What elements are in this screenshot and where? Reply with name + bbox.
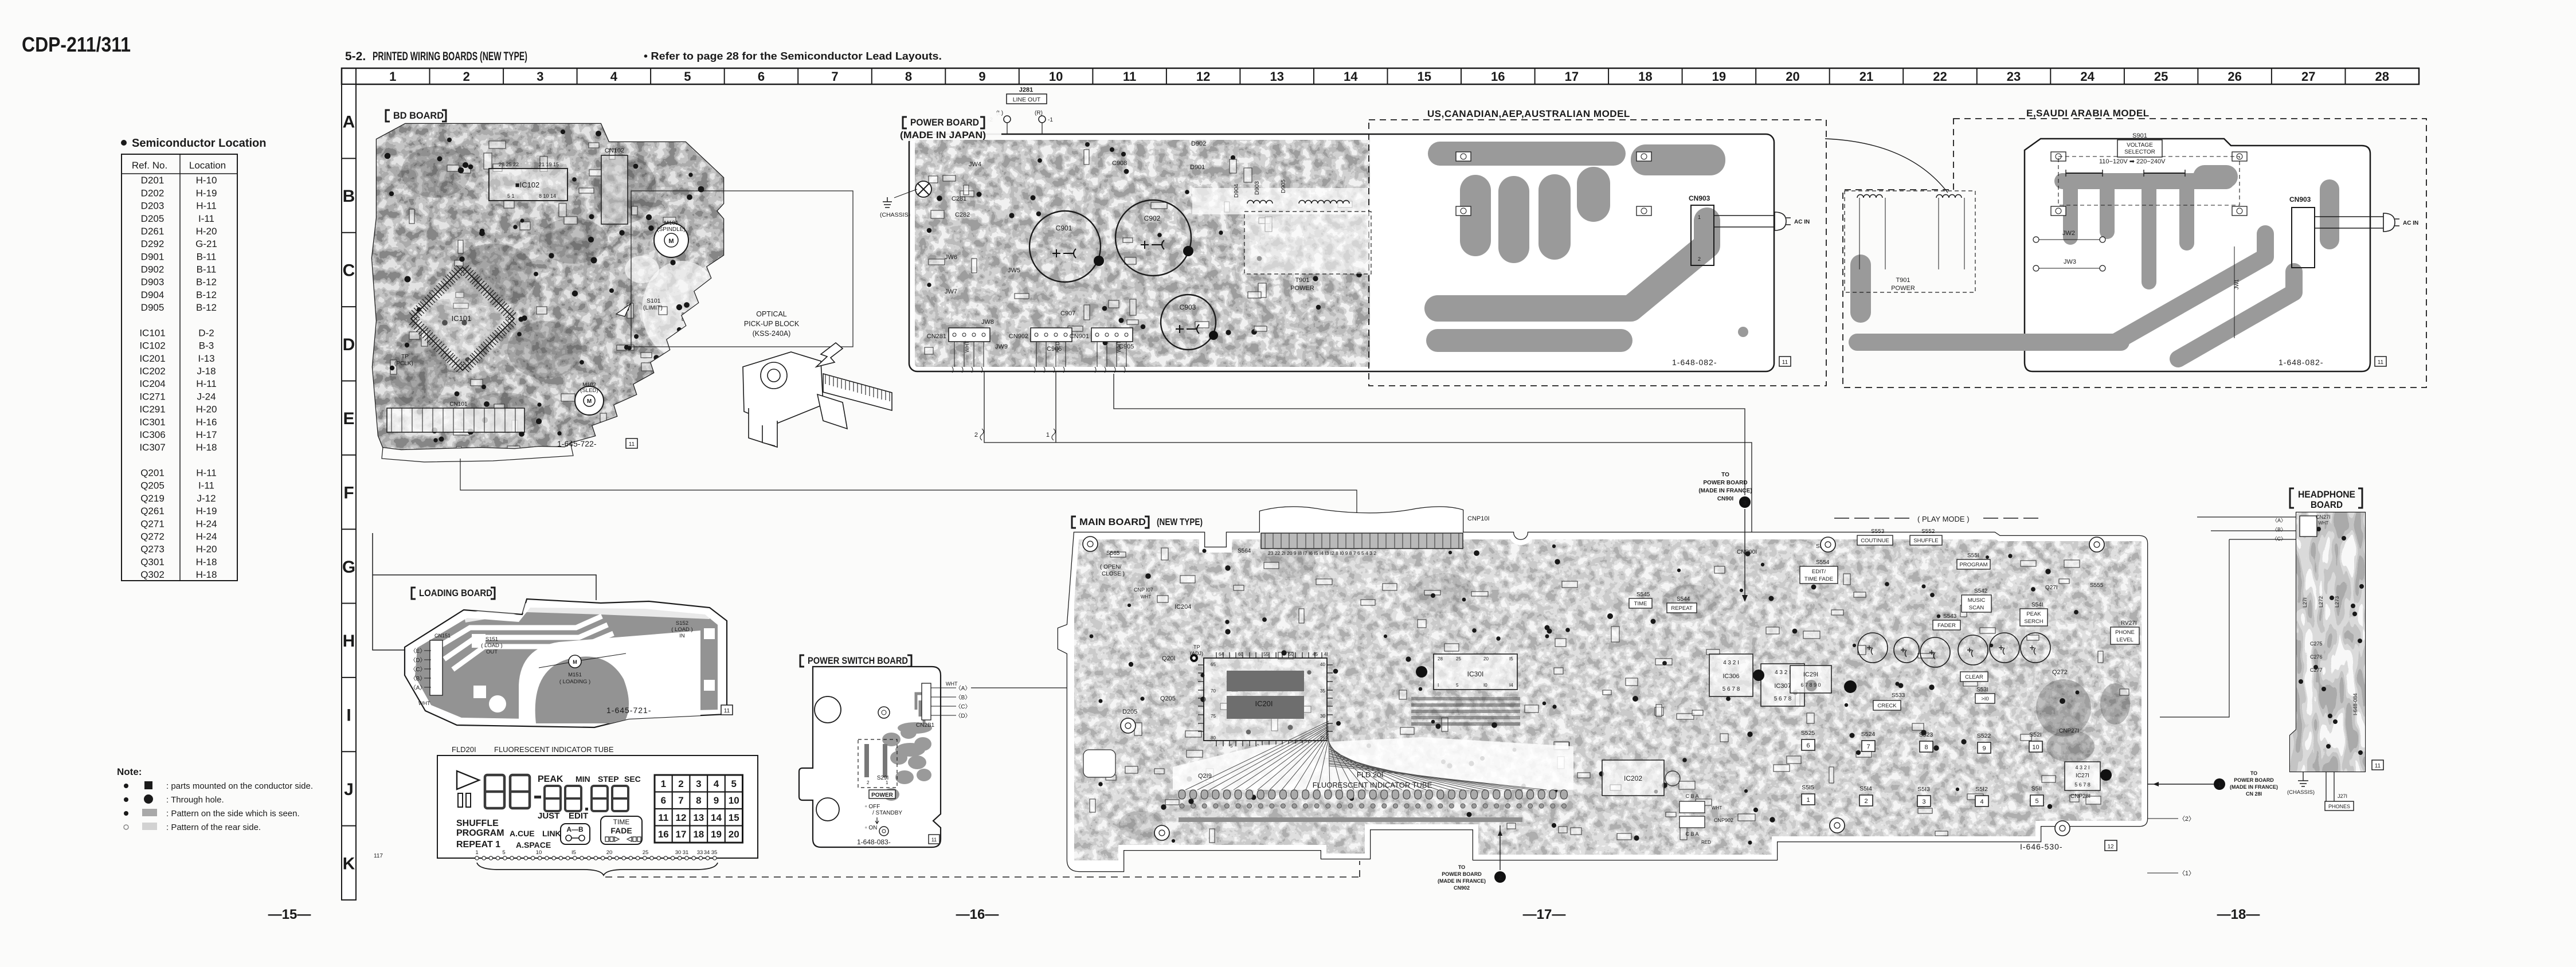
svg-text:G: G	[342, 558, 355, 577]
svg-text:〈1〉: 〈1〉	[2179, 870, 2195, 877]
svg-text:12: 12	[676, 812, 687, 823]
svg-text:Q219: Q219	[140, 493, 165, 504]
svg-text:IC204: IC204	[139, 378, 165, 389]
svg-text:14: 14	[1344, 69, 1358, 84]
svg-text:PEAK: PEAK	[2026, 611, 2041, 617]
svg-text:AC IN: AC IN	[1794, 219, 1810, 225]
svg-text:31: 31	[683, 849, 689, 856]
svg-text:S533: S533	[1892, 692, 1905, 699]
svg-text:▫ OFF: ▫ OFF	[865, 804, 880, 810]
svg-text:CN90I: CN90I	[1717, 496, 1734, 502]
svg-text:20: 20	[729, 829, 739, 840]
svg-text:S543: S543	[1943, 613, 1957, 620]
svg-text:M: M	[573, 659, 577, 665]
svg-text:S545: S545	[1637, 592, 1650, 598]
svg-text:Q301: Q301	[140, 557, 165, 567]
svg-text:7: 7	[831, 69, 838, 84]
svg-text:17: 17	[676, 829, 687, 840]
svg-text:S52I: S52I	[2029, 731, 2042, 738]
svg-text:C902: C902	[1144, 214, 1161, 222]
svg-text:1-648-083-: 1-648-083-	[857, 838, 891, 846]
svg-text:3: 3	[696, 778, 701, 789]
svg-text:S523: S523	[1919, 731, 1933, 738]
svg-text:1: 1	[389, 69, 396, 84]
svg-text:-1: -1	[1048, 117, 1053, 123]
svg-text:PRINTED WIRING BOARDS (NEW T: PRINTED WIRING BOARDS (NEW TYPE)	[373, 50, 527, 63]
svg-text:IC202: IC202	[139, 366, 165, 377]
svg-text:LINK: LINK	[542, 829, 561, 838]
svg-text:H-10: H-10	[196, 175, 217, 186]
svg-text:HEADPHONE: HEADPHONE	[2298, 489, 2355, 500]
svg-text:5: 5	[1230, 743, 1233, 749]
svg-text:〈B〉: 〈B〉	[2272, 527, 2286, 533]
svg-text:S554: S554	[1816, 559, 1830, 566]
svg-text:• Refer to page 28 for the Sem: • Refer to page 28 for the Semiconductor…	[644, 50, 942, 62]
svg-text:1-648-082-: 1-648-082-	[1672, 358, 1717, 367]
svg-text:CNP902: CNP902	[1714, 817, 1733, 823]
svg-text:REPEAT 1: REPEAT 1	[456, 840, 500, 849]
svg-text:WHT: WHT	[418, 700, 430, 706]
svg-text:■IC102: ■IC102	[515, 181, 540, 189]
svg-text:16: 16	[1491, 69, 1505, 84]
svg-text:4: 4	[714, 778, 719, 789]
svg-text:: parts mounted on the conduct: : parts mounted on the conductor side.	[166, 781, 313, 791]
svg-text:11: 11	[658, 812, 668, 823]
svg-text:T901: T901	[1896, 277, 1910, 284]
svg-text:S55I: S55I	[1967, 553, 1979, 559]
svg-text:27: 27	[2301, 69, 2315, 84]
svg-text:Q273: Q273	[140, 544, 165, 555]
svg-text:4 3 2 I: 4 3 2 I	[1775, 670, 1791, 676]
svg-text:15: 15	[1418, 69, 1431, 84]
svg-text:S5I2: S5I2	[1975, 786, 1988, 793]
svg-text:S525: S525	[1801, 730, 1815, 737]
svg-text:20: 20	[606, 849, 613, 856]
svg-text:4 3 2 I: 4 3 2 I	[2075, 765, 2089, 770]
svg-text:C B A: C B A	[1685, 831, 1698, 837]
svg-text:Location: Location	[189, 160, 226, 171]
svg-text:H-18: H-18	[196, 442, 217, 453]
svg-text:OUT: OUT	[486, 649, 498, 655]
svg-text:MAIN BOARD: MAIN BOARD	[1079, 516, 1146, 527]
svg-text:( PLAY MODE ): ( PLAY MODE )	[1917, 515, 1970, 523]
svg-text:14: 14	[711, 812, 722, 823]
svg-text:1-645-722-: 1-645-722-	[557, 439, 597, 448]
svg-text:1-645-721-: 1-645-721-	[606, 706, 652, 715]
svg-text:Q205: Q205	[140, 480, 165, 491]
svg-text:J-18: J-18	[197, 366, 216, 377]
svg-text:CN902: CN902	[1454, 885, 1470, 891]
svg-text:H-19: H-19	[196, 187, 217, 198]
svg-text:I-648-084: I-648-084	[2352, 693, 2358, 715]
svg-text:S553: S553	[1871, 528, 1885, 535]
svg-text:OPTICAL: OPTICAL	[756, 310, 787, 318]
svg-text:〈D〉: 〈D〉	[410, 657, 425, 664]
svg-text:SCAN: SCAN	[1969, 605, 1984, 611]
svg-text:5 1: 5 1	[507, 193, 515, 199]
svg-text:D902: D902	[1191, 140, 1206, 147]
svg-text:▫ ON: ▫ ON	[865, 825, 877, 831]
svg-text:〈A〉: 〈A〉	[2272, 518, 2286, 523]
svg-text:TO: TO	[1458, 864, 1465, 870]
svg-text:19: 19	[711, 829, 722, 840]
svg-text:A.SPACE: A.SPACE	[516, 840, 551, 849]
svg-text:〈B〉: 〈B〉	[410, 675, 426, 682]
svg-text:POWER BOARD: POWER BOARD	[1442, 871, 1482, 877]
svg-text:—18—: —18—	[2217, 907, 2260, 922]
svg-text:1: 1	[661, 778, 666, 789]
svg-text:D903: D903	[141, 277, 165, 288]
svg-text:E: E	[343, 409, 354, 428]
svg-text:28: 28	[2375, 69, 2389, 84]
svg-text:7: 7	[678, 795, 683, 806]
svg-text:I0: I0	[1483, 683, 1487, 688]
svg-text:Q261: Q261	[140, 506, 165, 516]
svg-text:3: 3	[537, 69, 543, 84]
svg-text:WHT: WHT	[1116, 340, 1122, 353]
svg-text:6: 6	[661, 795, 666, 806]
svg-text:(MADE IN JAPAN): (MADE IN JAPAN)	[900, 130, 986, 140]
svg-text:2: 2	[1698, 256, 1701, 262]
svg-text:2: 2	[974, 432, 978, 439]
svg-text:Q20I: Q20I	[1162, 655, 1176, 662]
svg-text:11: 11	[2375, 763, 2381, 769]
svg-text:POWER: POWER	[871, 792, 894, 798]
svg-text:5-2.: 5-2.	[345, 50, 366, 63]
svg-text:〈2〉: 〈2〉	[2179, 815, 2195, 823]
svg-text:Ref. No.: Ref. No.	[132, 160, 167, 171]
svg-text:FADER: FADER	[1937, 623, 1956, 629]
svg-text:—16—: —16—	[956, 907, 999, 922]
svg-text:2: 2	[1498, 875, 1502, 882]
svg-text:SELECTOR: SELECTOR	[2124, 149, 2155, 155]
svg-text:S151: S151	[486, 636, 498, 643]
svg-text:JW4: JW4	[969, 161, 981, 168]
svg-text:TP: TP	[1193, 644, 1200, 650]
svg-text:40: 40	[1320, 662, 1325, 667]
svg-text:IC20I: IC20I	[1255, 699, 1273, 708]
svg-text:TIME FADE: TIME FADE	[1804, 576, 1833, 582]
svg-text:D202: D202	[141, 187, 165, 198]
svg-text:J: J	[344, 780, 354, 799]
svg-text:3: 3	[1922, 798, 1925, 805]
svg-text:D261: D261	[141, 226, 165, 237]
svg-text:H-17: H-17	[196, 429, 217, 440]
svg-text:REPEAT: REPEAT	[1671, 605, 1693, 612]
svg-text:〈A〉: 〈A〉	[410, 684, 426, 691]
svg-text:I4: I4	[1509, 683, 1513, 688]
svg-text:(SPINDLE): (SPINDLE)	[657, 226, 685, 233]
svg-text:(SLED): (SLED)	[580, 387, 598, 394]
svg-text:Semiconductor Location: Semiconductor Location	[132, 137, 266, 150]
svg-text:VOLTAGE: VOLTAGE	[2127, 142, 2153, 148]
svg-text:13: 13	[693, 812, 704, 823]
svg-text:H-16: H-16	[196, 417, 217, 428]
svg-text:117: 117	[374, 853, 383, 859]
svg-text:WHT: WHT	[2318, 520, 2328, 526]
svg-text:S53I: S53I	[1976, 687, 1988, 693]
svg-text:D201: D201	[141, 175, 165, 186]
svg-text:Q2I9: Q2I9	[1198, 773, 1212, 780]
svg-text:D203: D203	[141, 201, 165, 212]
svg-text:CN281: CN281	[927, 333, 946, 340]
svg-text:S552: S552	[1921, 528, 1935, 535]
svg-text:TIME: TIME	[1634, 601, 1647, 607]
svg-text:IC101: IC101	[452, 314, 472, 323]
svg-text:H-24: H-24	[196, 518, 217, 529]
svg-text:B-12: B-12	[196, 302, 217, 313]
svg-text:C908: C908	[1112, 160, 1127, 167]
svg-text:5: 5	[731, 778, 736, 789]
svg-text:I5: I5	[1509, 656, 1513, 661]
svg-text:TO: TO	[2250, 770, 2257, 776]
svg-text:Note:: Note:	[117, 766, 142, 777]
svg-text:J-24: J-24	[197, 391, 216, 402]
svg-text:PROGRAM: PROGRAM	[456, 828, 504, 838]
svg-text:C903: C903	[1180, 303, 1196, 311]
svg-text:11: 11	[724, 708, 730, 714]
svg-text:Q205: Q205	[1160, 695, 1176, 702]
svg-text:EDIT: EDIT	[569, 811, 588, 821]
svg-text:M101: M101	[664, 220, 678, 226]
svg-text:5 6 7 8: 5 6 7 8	[2074, 782, 2090, 788]
svg-text:16: 16	[658, 829, 669, 840]
svg-text:WHT: WHT	[1712, 805, 1722, 811]
svg-text:BD BOARD: BD BOARD	[393, 110, 444, 121]
svg-text:JW9: JW9	[995, 343, 1008, 350]
svg-text:WHT: WHT	[964, 340, 970, 353]
svg-text:B-3: B-3	[199, 340, 214, 351]
svg-text:I-13: I-13	[198, 353, 214, 364]
svg-text:IC271: IC271	[139, 391, 165, 402]
svg-text:10: 10	[1049, 69, 1063, 84]
svg-text:Q27I: Q27I	[2045, 585, 2058, 591]
svg-text:( LOADING ): ( LOADING )	[559, 679, 590, 685]
svg-text:35: 35	[1320, 688, 1325, 694]
svg-text:5 6 7 8: 5 6 7 8	[1722, 686, 1740, 692]
svg-text:(KSS-240A): (KSS-240A)	[753, 330, 791, 338]
svg-text:MUSIC: MUSIC	[1968, 597, 1986, 604]
svg-text:CNP28I: CNP28I	[2070, 793, 2090, 800]
svg-text:WHT: WHT	[1141, 594, 1151, 600]
svg-text:CN2B1: CN2B1	[916, 722, 935, 729]
svg-text:T901: T901	[1295, 277, 1309, 284]
svg-text:17: 17	[1565, 69, 1579, 84]
svg-text:9: 9	[1982, 745, 1986, 752]
svg-text:S524: S524	[1861, 731, 1876, 738]
svg-text:35: 35	[711, 849, 718, 856]
svg-text:1-648-082-: 1-648-082-	[2279, 358, 2324, 367]
svg-text:64: 64	[1219, 652, 1224, 657]
svg-text:RED: RED	[1055, 341, 1060, 353]
svg-text:POWER BOARD: POWER BOARD	[910, 117, 979, 128]
svg-text:Q272: Q272	[2052, 669, 2068, 676]
svg-text:CLOSE ): CLOSE )	[1102, 571, 1125, 577]
svg-text:12: 12	[1196, 69, 1210, 84]
svg-text:H-11: H-11	[196, 378, 217, 389]
svg-text:POWER: POWER	[1290, 285, 1314, 292]
svg-text:FLD 20I: FLD 20I	[1357, 770, 1383, 779]
svg-text:J-12: J-12	[197, 493, 216, 504]
svg-text:5: 5	[2035, 798, 2038, 805]
svg-text:D901: D901	[141, 251, 165, 262]
svg-text:A: A	[343, 113, 355, 132]
svg-text:D905: D905	[1281, 179, 1287, 193]
svg-text:IC291: IC291	[139, 404, 165, 415]
svg-text:(MADE IN FRANCE): (MADE IN FRANCE)	[2230, 784, 2278, 790]
svg-text:D: D	[343, 335, 355, 354]
svg-text:RV27I: RV27I	[2121, 620, 2137, 627]
svg-text:COUTINUE: COUTINUE	[1861, 538, 1889, 544]
svg-text:4 3 2 I: 4 3 2 I	[1723, 660, 1739, 666]
svg-text:H-20: H-20	[196, 404, 217, 415]
svg-text:3: 3	[1743, 500, 1747, 507]
svg-text:(CHASSIS): (CHASSIS)	[880, 212, 910, 218]
svg-text:S5I4: S5I4	[1859, 785, 1872, 792]
svg-text:TP: TP	[401, 354, 409, 360]
svg-text:FADE: FADE	[610, 826, 632, 835]
svg-text:6: 6	[758, 69, 765, 84]
svg-text:US,CANADIAN,AEP,AUSTRALIAN MOD: US,CANADIAN,AEP,AUSTRALIAN MODEL	[1427, 108, 1630, 119]
svg-text:C901: C901	[1056, 224, 1072, 232]
svg-text:IC204: IC204	[1175, 604, 1191, 610]
svg-text:CRECK: CRECK	[1877, 703, 1897, 709]
svg-text:D904: D904	[1234, 184, 1240, 198]
svg-text:C275: C275	[2310, 641, 2323, 647]
svg-text:POWER BOARD: POWER BOARD	[2234, 777, 2274, 783]
svg-text:CN903: CN903	[1689, 194, 1710, 202]
svg-text:JW5: JW5	[1008, 267, 1020, 274]
svg-text:H: H	[343, 632, 355, 651]
svg-text:1: 1	[1698, 214, 1701, 220]
svg-text:I: I	[1438, 683, 1439, 688]
svg-text:D903: D903	[1254, 181, 1260, 195]
svg-text:B-12: B-12	[196, 277, 217, 288]
svg-text:C: C	[343, 261, 355, 280]
svg-text:A—B: A—B	[566, 825, 584, 833]
svg-text:L273: L273	[2334, 596, 2340, 608]
svg-text:10: 10	[536, 849, 542, 856]
svg-text:H-18: H-18	[196, 569, 217, 580]
svg-text:1: 1	[2218, 782, 2221, 789]
svg-text:22: 22	[1933, 69, 1947, 84]
svg-text:11: 11	[2378, 359, 2384, 366]
svg-text:45: 45	[1313, 652, 1318, 657]
svg-text:G-21: G-21	[195, 238, 217, 249]
svg-text:B: B	[343, 187, 355, 206]
svg-text:15: 15	[729, 812, 739, 823]
svg-text:D205: D205	[1122, 708, 1137, 715]
svg-text:25: 25	[1456, 656, 1461, 661]
svg-text:IC306: IC306	[1722, 673, 1739, 680]
svg-text:D292: D292	[141, 238, 165, 249]
svg-text:B-12: B-12	[196, 289, 217, 300]
svg-text:H-19: H-19	[196, 506, 217, 516]
svg-text:( LOAD ): ( LOAD )	[671, 627, 692, 633]
svg-text:CN 28I: CN 28I	[2246, 791, 2262, 797]
svg-text:75: 75	[1211, 714, 1216, 719]
svg-text:BOARD: BOARD	[2311, 499, 2343, 510]
svg-text:2: 2	[1864, 798, 1868, 805]
svg-text:PROGRAM: PROGRAM	[1959, 562, 1987, 568]
svg-text:IN: IN	[679, 633, 685, 639]
svg-text:28 25 22: 28 25 22	[499, 162, 519, 167]
svg-text:65: 65	[1211, 662, 1216, 667]
svg-text:M151: M151	[568, 672, 582, 678]
svg-text:11: 11	[1782, 359, 1788, 366]
svg-text:4: 4	[1980, 798, 1983, 805]
svg-text:JW2: JW2	[2062, 230, 2075, 237]
svg-text:(PCLK): (PCLK)	[394, 361, 413, 367]
svg-text:K: K	[343, 854, 355, 873]
svg-text:AC IN: AC IN	[2403, 220, 2418, 226]
svg-text:S54I: S54I	[2031, 602, 2043, 608]
svg-text:13: 13	[1270, 69, 1283, 84]
svg-text:10: 10	[2032, 744, 2039, 751]
svg-text:SERCH: SERCH	[2024, 618, 2043, 625]
svg-text:1: 1	[1046, 432, 1050, 439]
svg-text:FLD20I: FLD20I	[452, 745, 476, 754]
svg-text:19: 19	[1712, 69, 1726, 84]
svg-text:CNP27I: CNP27I	[2059, 728, 2079, 734]
svg-text:RED: RED	[1701, 840, 1711, 845]
svg-text:(LIMIT): (LIMIT)	[643, 304, 663, 311]
svg-text:6: 6	[1806, 742, 1810, 749]
svg-text:Q271: Q271	[140, 518, 165, 529]
svg-text:〈C〉: 〈C〉	[2272, 536, 2287, 542]
svg-text:CNP90I: CNP90I	[1737, 549, 1757, 555]
svg-text:20: 20	[1786, 69, 1799, 84]
svg-text:30: 30	[1320, 714, 1325, 719]
svg-text:25: 25	[643, 849, 649, 856]
svg-text:C276: C276	[2310, 654, 2323, 660]
svg-text:C277: C277	[2310, 667, 2323, 673]
svg-text:IC306: IC306	[139, 429, 165, 440]
svg-text:2: 2	[463, 69, 470, 84]
svg-text:( LOAD ): ( LOAD )	[481, 643, 502, 649]
svg-text:( OPEN/: ( OPEN/	[1100, 564, 1121, 570]
svg-text:S522: S522	[1977, 733, 1991, 739]
svg-text:L272: L272	[2318, 596, 2324, 608]
svg-text:26: 26	[2227, 69, 2241, 84]
svg-text:M: M	[587, 398, 592, 405]
svg-text:11: 11	[629, 441, 635, 448]
svg-text:L27I: L27I	[2302, 597, 2308, 608]
svg-text:S565: S565	[1106, 550, 1120, 557]
svg-text:SEC: SEC	[624, 774, 641, 784]
svg-text:5: 5	[502, 849, 505, 856]
svg-text:H-11: H-11	[196, 468, 217, 479]
svg-text:J27I: J27I	[2338, 793, 2347, 799]
svg-text:9: 9	[714, 795, 719, 806]
svg-text:CN102: CN102	[605, 147, 624, 154]
svg-text:1: 1	[475, 849, 478, 856]
svg-text:A.CUE: A.CUE	[510, 829, 535, 838]
svg-text:S101: S101	[647, 297, 661, 304]
svg-text:S542: S542	[1974, 588, 1988, 594]
svg-text:〈D〉: 〈D〉	[955, 712, 970, 719]
svg-text:1: 1	[1806, 797, 1810, 804]
svg-text:Q201: Q201	[140, 468, 165, 479]
svg-text:: Pattern on the side which is: : Pattern on the side which is seen.	[166, 809, 300, 819]
svg-text:D904: D904	[141, 289, 165, 300]
svg-text:30: 30	[675, 849, 682, 856]
svg-text:CLEAR: CLEAR	[1965, 674, 1983, 680]
svg-text:2: 2	[678, 778, 683, 789]
svg-text:FLUORESCENT INDICATOR TUBE: FLUORESCENT INDICATOR TUBE	[1313, 781, 1432, 789]
svg-text:CN903: CN903	[2289, 195, 2311, 203]
svg-text:D-2: D-2	[198, 327, 214, 338]
